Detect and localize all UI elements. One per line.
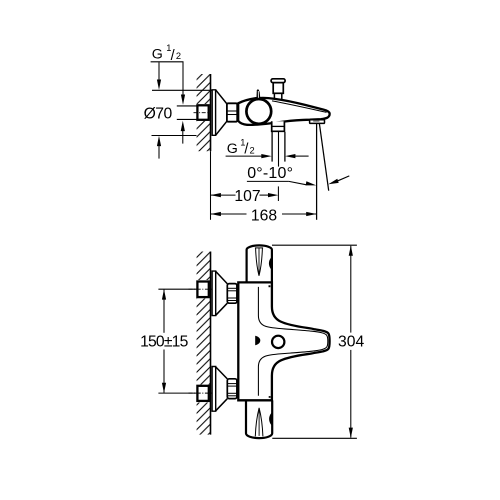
svg-text:150±15: 150±15 <box>140 334 189 351</box>
svg-text:0°-10°: 0°-10° <box>247 165 293 182</box>
svg-text:G: G <box>152 47 163 63</box>
svg-text:Ø70: Ø70 <box>144 106 173 123</box>
svg-text:2: 2 <box>176 51 181 61</box>
svg-text:304: 304 <box>338 334 364 351</box>
svg-text:G: G <box>227 141 238 157</box>
svg-text:107: 107 <box>234 188 260 205</box>
svg-text:2: 2 <box>250 145 255 155</box>
svg-text:168: 168 <box>251 207 277 224</box>
